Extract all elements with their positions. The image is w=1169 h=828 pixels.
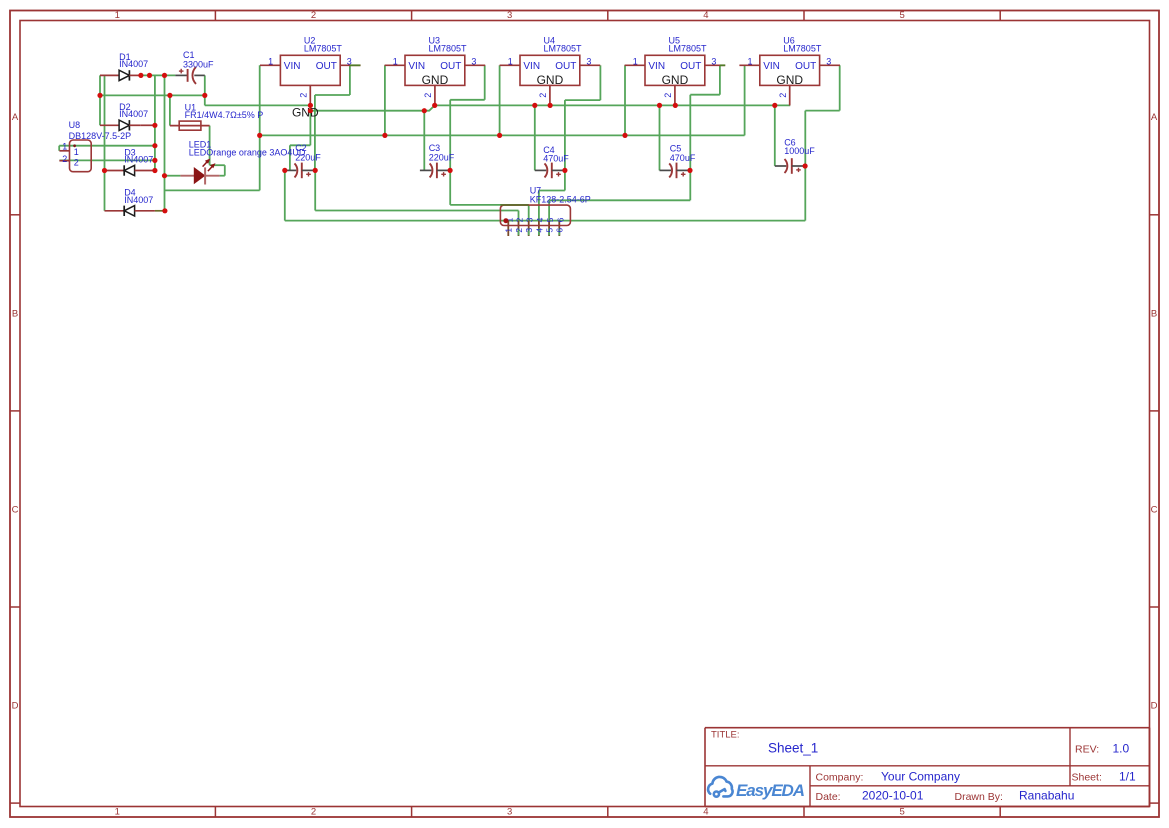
- svg-text:IN4007: IN4007: [124, 155, 153, 165]
- svg-text:3: 3: [524, 228, 534, 233]
- svg-text:5: 5: [545, 217, 555, 222]
- svg-text:Ranabahu: Ranabahu: [1019, 789, 1074, 803]
- svg-text:GND: GND: [662, 73, 689, 87]
- svg-text:1: 1: [504, 228, 514, 233]
- svg-text:REV:: REV:: [1075, 743, 1099, 755]
- svg-text:D: D: [1151, 701, 1158, 712]
- svg-text:B: B: [12, 308, 18, 319]
- svg-text:470uF: 470uF: [543, 153, 569, 163]
- svg-text:3: 3: [507, 10, 512, 21]
- svg-text:220uF: 220uF: [429, 152, 455, 162]
- svg-text:LEDOrange orange 3AO4UD: LEDOrange orange 3AO4UD: [189, 148, 306, 158]
- svg-text:VIN: VIN: [763, 61, 780, 72]
- svg-text:5: 5: [899, 10, 904, 21]
- svg-text:3: 3: [826, 57, 831, 67]
- svg-text:Sheet_1: Sheet_1: [768, 741, 818, 756]
- svg-text:3: 3: [471, 57, 476, 67]
- svg-text:2: 2: [311, 10, 316, 21]
- svg-text:5: 5: [899, 806, 904, 817]
- svg-text:IN4007: IN4007: [124, 195, 153, 205]
- svg-text:KF128-2.54-6P: KF128-2.54-6P: [530, 195, 591, 205]
- svg-text:Company:: Company:: [816, 771, 864, 783]
- svg-text:DB128V-7.5-2P: DB128V-7.5-2P: [69, 131, 132, 141]
- svg-text:2: 2: [663, 93, 673, 98]
- svg-text:4: 4: [703, 806, 708, 817]
- svg-text:1: 1: [508, 57, 513, 67]
- svg-text:2: 2: [778, 93, 788, 98]
- svg-text:LM7805T: LM7805T: [304, 43, 343, 53]
- svg-text:OUT: OUT: [680, 61, 701, 72]
- svg-text:LM7805T: LM7805T: [669, 43, 708, 53]
- svg-text:1: 1: [633, 57, 638, 67]
- svg-text:2: 2: [62, 154, 67, 164]
- svg-text:TITLE:: TITLE:: [711, 730, 740, 741]
- svg-text:220uF: 220uF: [295, 152, 321, 162]
- svg-text:A: A: [12, 112, 19, 123]
- svg-text:1: 1: [62, 141, 67, 151]
- svg-text:Your Company: Your Company: [881, 769, 960, 783]
- svg-text:VIN: VIN: [284, 61, 301, 72]
- svg-text:A: A: [1151, 112, 1158, 123]
- svg-text:U8: U8: [69, 120, 81, 130]
- svg-text:OUT: OUT: [316, 61, 337, 72]
- svg-text:VIN: VIN: [523, 61, 540, 72]
- svg-text:LM7805T: LM7805T: [544, 43, 583, 53]
- svg-text:FR1/4W4.7Ω±5% P: FR1/4W4.7Ω±5% P: [185, 110, 264, 120]
- svg-text:EasyEDA: EasyEDA: [736, 781, 805, 800]
- svg-text:3: 3: [586, 57, 591, 67]
- svg-text:1: 1: [115, 10, 120, 21]
- svg-text:GND: GND: [537, 73, 564, 87]
- svg-text:2: 2: [538, 93, 548, 98]
- svg-text:OUT: OUT: [440, 61, 461, 72]
- svg-text:3300uF: 3300uF: [183, 59, 214, 69]
- svg-text:1: 1: [268, 57, 273, 67]
- svg-text:GND: GND: [292, 106, 319, 120]
- svg-text:3: 3: [507, 806, 512, 817]
- svg-text:Date:: Date:: [816, 791, 841, 803]
- svg-text:1: 1: [115, 806, 120, 817]
- svg-text:IN4007: IN4007: [119, 59, 148, 69]
- svg-text:6: 6: [555, 217, 565, 222]
- svg-text:LM7805T: LM7805T: [783, 43, 822, 53]
- svg-text:GND: GND: [776, 73, 803, 87]
- svg-text:GND: GND: [422, 73, 449, 87]
- svg-text:2: 2: [74, 157, 79, 167]
- svg-text:6: 6: [555, 228, 565, 233]
- svg-text:IN4007: IN4007: [119, 109, 148, 119]
- svg-text:Sheet:: Sheet:: [1072, 772, 1102, 784]
- svg-text:470uF: 470uF: [670, 153, 696, 163]
- svg-text:OUT: OUT: [555, 61, 576, 72]
- svg-text:4: 4: [703, 10, 708, 21]
- svg-text:3: 3: [525, 217, 535, 222]
- svg-text:OUT: OUT: [795, 61, 816, 72]
- svg-text:LM7805T: LM7805T: [429, 43, 468, 53]
- svg-text:1.0: 1.0: [1113, 741, 1130, 755]
- svg-text:1/1: 1/1: [1119, 770, 1136, 784]
- svg-text:4: 4: [534, 228, 544, 233]
- svg-text:C: C: [1151, 504, 1158, 515]
- svg-text:1000uF: 1000uF: [784, 146, 815, 156]
- svg-text:1: 1: [748, 57, 753, 67]
- svg-text:5: 5: [545, 228, 555, 233]
- svg-text:VIN: VIN: [648, 61, 665, 72]
- svg-text:2: 2: [515, 217, 525, 222]
- svg-text:4: 4: [535, 217, 545, 222]
- svg-text:2: 2: [423, 93, 433, 98]
- svg-text:C: C: [12, 504, 19, 515]
- svg-text:B: B: [1151, 308, 1157, 319]
- svg-text:2: 2: [311, 806, 316, 817]
- svg-text:D: D: [12, 701, 19, 712]
- svg-text:2: 2: [514, 228, 524, 233]
- svg-text:Drawn By:: Drawn By:: [955, 791, 1003, 803]
- svg-text:VIN: VIN: [408, 61, 425, 72]
- svg-text:1: 1: [393, 57, 398, 67]
- svg-text:1: 1: [74, 147, 79, 157]
- svg-text:2: 2: [299, 93, 309, 98]
- svg-text:3: 3: [711, 57, 716, 67]
- svg-text:2020-10-01: 2020-10-01: [862, 789, 924, 803]
